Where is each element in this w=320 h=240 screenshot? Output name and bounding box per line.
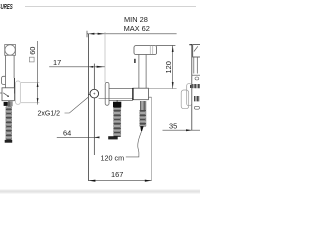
column right xyxy=(145,54,147,88)
svg-text:167: 167 xyxy=(111,170,123,179)
plate face extension line xyxy=(104,32,106,83)
bracket left stub line xyxy=(0,92,2,94)
dim17 arrow right xyxy=(97,66,105,68)
hose2 coil xyxy=(140,110,146,126)
hose nut black xyxy=(4,102,8,106)
svg-text:120: 120 xyxy=(164,61,173,73)
wall plate (middle, side) xyxy=(105,82,109,105)
top bar seam 1 xyxy=(149,46,151,55)
column left xyxy=(138,54,140,88)
hose1 coil xyxy=(114,107,121,136)
top bar xyxy=(134,46,157,55)
svg-text:MIN 28: MIN 28 xyxy=(124,15,148,24)
top bar seam 2 xyxy=(152,46,154,55)
hose coil left xyxy=(6,107,12,142)
svg-text:64: 64 xyxy=(63,129,71,138)
bracket lever dot xyxy=(7,95,9,97)
hose1 nut black xyxy=(113,102,121,108)
pulled hose top tick xyxy=(149,96,152,98)
holder ring arm xyxy=(88,94,90,96)
handle axis line xyxy=(93,64,95,155)
right handle right xyxy=(196,57,198,73)
hose1 end fitting xyxy=(108,136,118,139)
handle dark lower edge xyxy=(13,78,15,94)
dimension 60 line xyxy=(37,41,39,105)
arm bottom line xyxy=(109,99,133,101)
right fitting hatch B xyxy=(195,96,199,101)
square symbol xyxy=(29,57,34,62)
handle body right edge xyxy=(13,55,15,78)
ring center mark xyxy=(93,93,95,95)
right small oval xyxy=(195,77,199,80)
svg-text:2xG1/2: 2xG1/2 xyxy=(38,111,61,118)
right wall dark tick xyxy=(190,85,192,88)
svg-text:17: 17 xyxy=(53,58,61,67)
right wall line xyxy=(191,44,193,130)
right wall top tick xyxy=(189,44,192,46)
hose nut hatched xyxy=(8,101,12,106)
svg-text:MAX 62: MAX 62 xyxy=(124,24,150,33)
dim35 line xyxy=(163,129,201,131)
dimension 17 line xyxy=(49,66,105,68)
right fitting oval2 xyxy=(194,106,199,109)
dim167 arrow right xyxy=(145,180,152,182)
hose2 nut hatched xyxy=(141,101,146,110)
shower head round face xyxy=(5,45,15,55)
body box xyxy=(133,88,149,100)
svg-text:MEASURES: MEASURES xyxy=(0,4,13,11)
min-max dimension line xyxy=(87,33,177,35)
header rule xyxy=(25,6,196,8)
right fitting hatch A xyxy=(193,84,200,88)
svg-text:35: 35 xyxy=(169,122,177,131)
wall line xyxy=(87,34,89,181)
dim167 line xyxy=(88,180,151,182)
dimension 60 arrow up xyxy=(37,82,39,87)
bracket lever line xyxy=(3,93,8,96)
dim64 arrow xyxy=(94,136,99,138)
right head box xyxy=(193,45,201,57)
right shelf line xyxy=(192,74,201,76)
2xG1/2 leader xyxy=(65,97,89,113)
holder ring xyxy=(90,89,99,98)
wall plate (side) xyxy=(16,81,21,104)
pull-out hose thin line xyxy=(138,131,142,153)
handle body left edge xyxy=(5,55,7,88)
ext line bottom xyxy=(148,88,176,90)
arm top line xyxy=(109,87,133,89)
svg-text:60: 60 xyxy=(28,47,37,55)
extension line plate top xyxy=(21,81,39,83)
dim120 arrow down xyxy=(172,82,174,89)
dimension 60 arrow down xyxy=(37,98,39,103)
dim167 arrow left xyxy=(89,180,96,182)
dim64 line xyxy=(57,136,99,138)
header title (clipped at left edge) xyxy=(0,4,13,11)
bracket box xyxy=(2,88,14,101)
hose2 end tip xyxy=(140,126,143,131)
tick at wall xyxy=(86,31,88,37)
right holder plate xyxy=(187,84,192,106)
pulled hose extension line xyxy=(151,97,153,180)
120cm leader xyxy=(126,153,139,157)
minmax arrow left xyxy=(89,33,95,35)
holder arm lower line xyxy=(99,98,133,100)
svg-text:120 cm: 120 cm xyxy=(101,153,125,162)
minmax arrow right xyxy=(98,33,105,35)
holder hook xyxy=(2,76,6,84)
right head diagonal xyxy=(194,46,198,51)
extension line plate bottom xyxy=(21,102,39,104)
shower head square xyxy=(5,45,16,56)
dim120 arrow up xyxy=(172,45,174,52)
right handle left xyxy=(193,57,195,73)
bar end dark tick xyxy=(134,59,136,63)
dim35 arrow xyxy=(186,129,192,131)
footer separator band xyxy=(0,188,200,191)
hose end fitting left xyxy=(5,140,13,143)
hose1 stub xyxy=(116,100,118,102)
right holder bracket outer xyxy=(181,90,189,109)
body box dark edge xyxy=(132,88,134,100)
dim17 arrow left xyxy=(89,66,94,68)
dim120 line xyxy=(172,45,174,88)
